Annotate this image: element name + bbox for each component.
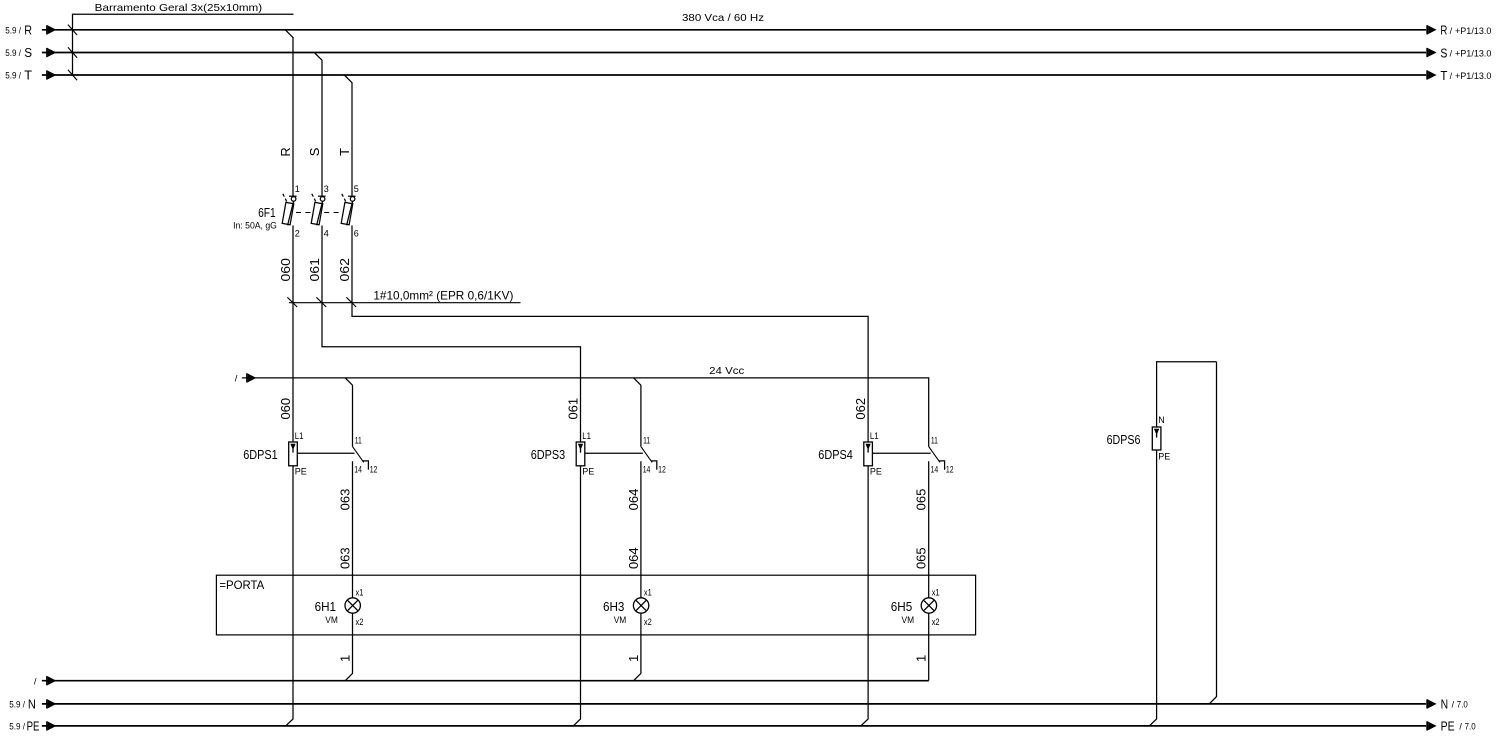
wire tap 6DPS1 to contact <box>297 452 354 454</box>
wire 064 contact 14 to lamp 6H3 <box>640 461 642 598</box>
svg-text:5.9 /: 5.9 / <box>9 700 25 710</box>
svg-text:/: / <box>34 676 37 687</box>
dashed-function box =PORTA <box>216 575 975 635</box>
wire N loop for 6DPS6 <box>1157 362 1217 427</box>
svg-text:PE: PE <box>1158 452 1170 462</box>
destination arrow bus S right <box>1426 48 1428 57</box>
destination arrow bus T right <box>1426 70 1428 79</box>
svg-text:N: N <box>1158 415 1165 425</box>
cable line 1#10,0mm2 <box>289 302 521 304</box>
svg-text:6H5: 6H5 <box>891 599 912 614</box>
svg-text:6: 6 <box>354 229 359 239</box>
svg-text:060: 060 <box>278 258 293 282</box>
fuse 6F1 pole 1-2 <box>282 194 296 226</box>
svg-text:+P1/13.0: +P1/13.0 <box>1455 26 1491 36</box>
wire 063 contact 14 to lamp 6H1 <box>352 461 354 598</box>
svg-text:VM: VM <box>902 615 915 625</box>
source arrow bus R left <box>46 25 48 34</box>
svg-text:x2: x2 <box>644 617 652 627</box>
svg-text:+P1/13.0: +P1/13.0 <box>1455 71 1491 81</box>
contact 12 terminal hook 6DPS1 <box>363 461 369 470</box>
svg-text:064: 064 <box>626 547 641 569</box>
svg-text:3: 3 <box>324 184 329 194</box>
svg-text:=PORTA: =PORTA <box>219 578 264 592</box>
svg-text:T: T <box>337 148 352 156</box>
wire phase R drop from bus <box>285 30 293 196</box>
bus tap tick T <box>68 70 77 80</box>
cable tick at wire x=352 <box>346 297 356 307</box>
svg-text:14: 14 <box>931 464 939 474</box>
source arrow N left <box>46 699 48 708</box>
source arrow bus S left <box>46 48 48 57</box>
svg-text:1: 1 <box>626 655 641 662</box>
svg-text:12: 12 <box>370 464 378 474</box>
wire phase T drop from bus <box>344 75 352 196</box>
wire 062 fuse to 6DPS4 <box>352 226 868 443</box>
svg-text:7.0: 7.0 <box>1465 722 1476 732</box>
svg-text:PE: PE <box>1441 719 1455 733</box>
svg-text:6DPS1: 6DPS1 <box>243 447 278 462</box>
svg-text:12: 12 <box>946 464 954 474</box>
svg-text:/: / <box>235 374 238 385</box>
svg-text:x2: x2 <box>932 617 940 627</box>
svg-text:PE: PE <box>27 719 40 733</box>
svg-text:1#10,0mm² (EPR 0,6/1KV): 1#10,0mm² (EPR 0,6/1KV) <box>373 289 513 303</box>
svg-text:24 Vcc: 24 Vcc <box>709 366 744 377</box>
svg-text:14: 14 <box>354 464 362 474</box>
wire lamp 6H3 x2 down to 0V rail <box>634 613 641 681</box>
wire tap 6DPS4 to contact <box>872 452 930 454</box>
wire PE below 6DPS1 <box>286 466 293 726</box>
bus tap tick R <box>68 25 77 35</box>
svg-text:L1: L1 <box>870 431 879 441</box>
wire lamp 6H5 x2 down to 0V rail <box>928 613 930 681</box>
svg-text:063: 063 <box>338 489 353 511</box>
svg-text:L1: L1 <box>582 431 591 441</box>
svg-text:x1: x1 <box>356 587 364 597</box>
svg-text:060: 060 <box>278 398 293 420</box>
svg-text:x1: x1 <box>644 587 652 597</box>
svg-text:5.9 /: 5.9 / <box>9 722 25 732</box>
svg-text:PE: PE <box>582 466 594 476</box>
svg-text:VM: VM <box>325 615 338 625</box>
svg-text:065: 065 <box>914 547 929 569</box>
wire PE below 6DPS6 <box>1149 450 1156 726</box>
wire bus T 380V <box>42 74 1426 76</box>
lamp 6H5 <box>921 598 936 613</box>
svg-text:L1: L1 <box>295 431 304 441</box>
fuse 6F1 pole linkage dashed line <box>296 212 344 214</box>
svg-text:4: 4 <box>324 229 329 239</box>
svg-text:R: R <box>1440 24 1447 38</box>
svg-text:S: S <box>1440 46 1447 60</box>
bus tap tick S <box>68 47 77 57</box>
svg-text:063: 063 <box>338 547 353 569</box>
svg-text:061: 061 <box>566 398 581 420</box>
source arrow 0V left <box>46 676 48 685</box>
source arrow 24Vcc left <box>246 373 248 382</box>
changeover contact blade 6DPS4 <box>929 447 940 463</box>
wire 065 contact 14 to lamp 6H5 <box>928 461 930 598</box>
svg-text:5.9 /: 5.9 / <box>5 71 21 81</box>
svg-text:380 Vca / 60 Hz: 380 Vca / 60 Hz <box>682 13 764 24</box>
wire PE below 6DPS4 <box>861 466 868 726</box>
wire 061 fuse to 6DPS3 <box>322 226 581 443</box>
svg-text:12: 12 <box>658 464 666 474</box>
cable tick at wire x=293 <box>287 297 297 307</box>
fuse 6F1 pole 3-4 <box>311 194 325 226</box>
svg-text:PE: PE <box>295 466 307 476</box>
source arrow bus T left <box>46 70 48 79</box>
surge arrester 6DPS4 <box>864 442 873 466</box>
wire PE rail <box>42 725 1426 727</box>
svg-text:062: 062 <box>853 398 868 420</box>
lamp 6H1 <box>345 598 360 613</box>
svg-text:6H1: 6H1 <box>315 599 336 614</box>
svg-text:2: 2 <box>295 229 300 239</box>
wire N leg down to N rail <box>1209 362 1216 704</box>
svg-text:061: 061 <box>307 258 322 282</box>
svg-text:064: 064 <box>626 489 641 511</box>
contact 12 terminal hook 6DPS3 <box>651 461 657 470</box>
svg-text:11: 11 <box>643 435 650 445</box>
busbar bracket line <box>73 14 294 75</box>
svg-text:x2: x2 <box>356 617 364 627</box>
contact 12 terminal hook 6DPS4 <box>939 461 945 470</box>
source arrow PE left <box>46 721 48 730</box>
wire phase S drop from bus <box>314 53 322 197</box>
wire 24 Vcc rail <box>242 378 929 447</box>
svg-text:In: 50A, gG: In: 50A, gG <box>233 221 277 231</box>
svg-text:6DPS6: 6DPS6 <box>1107 432 1141 447</box>
changeover contact blade 6DPS3 <box>641 447 652 463</box>
svg-text:5.9 /: 5.9 / <box>5 48 21 58</box>
wire 0V rail / <box>42 680 929 682</box>
svg-text:14: 14 <box>643 464 651 474</box>
svg-text:1: 1 <box>914 655 929 662</box>
wire tap 6DPS3 to contact <box>585 452 643 454</box>
svg-text:1: 1 <box>295 184 300 194</box>
svg-text:11: 11 <box>355 435 362 445</box>
fuse 6F1 pole 5-6 <box>341 194 355 226</box>
svg-text:x1: x1 <box>932 587 940 597</box>
svg-text:6F1: 6F1 <box>258 205 276 220</box>
changeover contact blade 6DPS1 <box>353 447 364 463</box>
svg-text:R: R <box>24 23 32 37</box>
svg-text:Barramento Geral 3x(25x10mm): Barramento Geral 3x(25x10mm) <box>95 2 263 14</box>
svg-text:S: S <box>307 147 322 156</box>
svg-text:PE: PE <box>870 466 882 476</box>
wire bus R 380V <box>42 29 1426 31</box>
svg-text:065: 065 <box>914 489 929 511</box>
svg-text:5: 5 <box>354 184 359 194</box>
wire lamp 6H1 x2 down to 0V rail <box>345 613 352 681</box>
cable tick at wire x=322 <box>316 297 326 307</box>
svg-text:+P1/13.0: +P1/13.0 <box>1455 49 1491 59</box>
svg-text:062: 062 <box>337 258 352 282</box>
wire 060 fuse to 6DPS1 <box>292 226 294 443</box>
destination arrow N right <box>1426 699 1428 708</box>
wire PE below 6DPS3 <box>573 466 580 726</box>
lamp 6H3 <box>633 598 648 613</box>
svg-text:N: N <box>28 697 36 711</box>
destination arrow bus R right <box>1426 25 1428 34</box>
svg-text:6DPS4: 6DPS4 <box>818 447 853 462</box>
svg-text:5.9 /: 5.9 / <box>5 26 21 36</box>
svg-text:T: T <box>24 69 32 83</box>
destination arrow PE right <box>1426 721 1428 730</box>
svg-text:6DPS3: 6DPS3 <box>531 447 566 462</box>
wire branch 24Vcc to contact 11 6DPS3 <box>634 378 641 447</box>
svg-text:11: 11 <box>931 435 938 445</box>
svg-text:7.0: 7.0 <box>1457 700 1468 710</box>
svg-text:N: N <box>1441 697 1449 711</box>
surge arrester 6DPS6 <box>1152 427 1161 450</box>
wire N rail <box>42 703 1426 705</box>
svg-text:R: R <box>278 147 293 156</box>
svg-text:1: 1 <box>338 655 353 662</box>
wire branch 24Vcc to contact 11 6DPS1 <box>345 378 352 447</box>
wire bus S 380V <box>42 52 1426 54</box>
surge arrester 6DPS1 <box>289 442 298 466</box>
svg-text:T: T <box>1440 69 1447 83</box>
svg-text:VM: VM <box>614 615 627 625</box>
svg-text:6H3: 6H3 <box>603 599 624 614</box>
surge arrester 6DPS3 <box>576 442 585 466</box>
svg-text:S: S <box>24 46 32 60</box>
